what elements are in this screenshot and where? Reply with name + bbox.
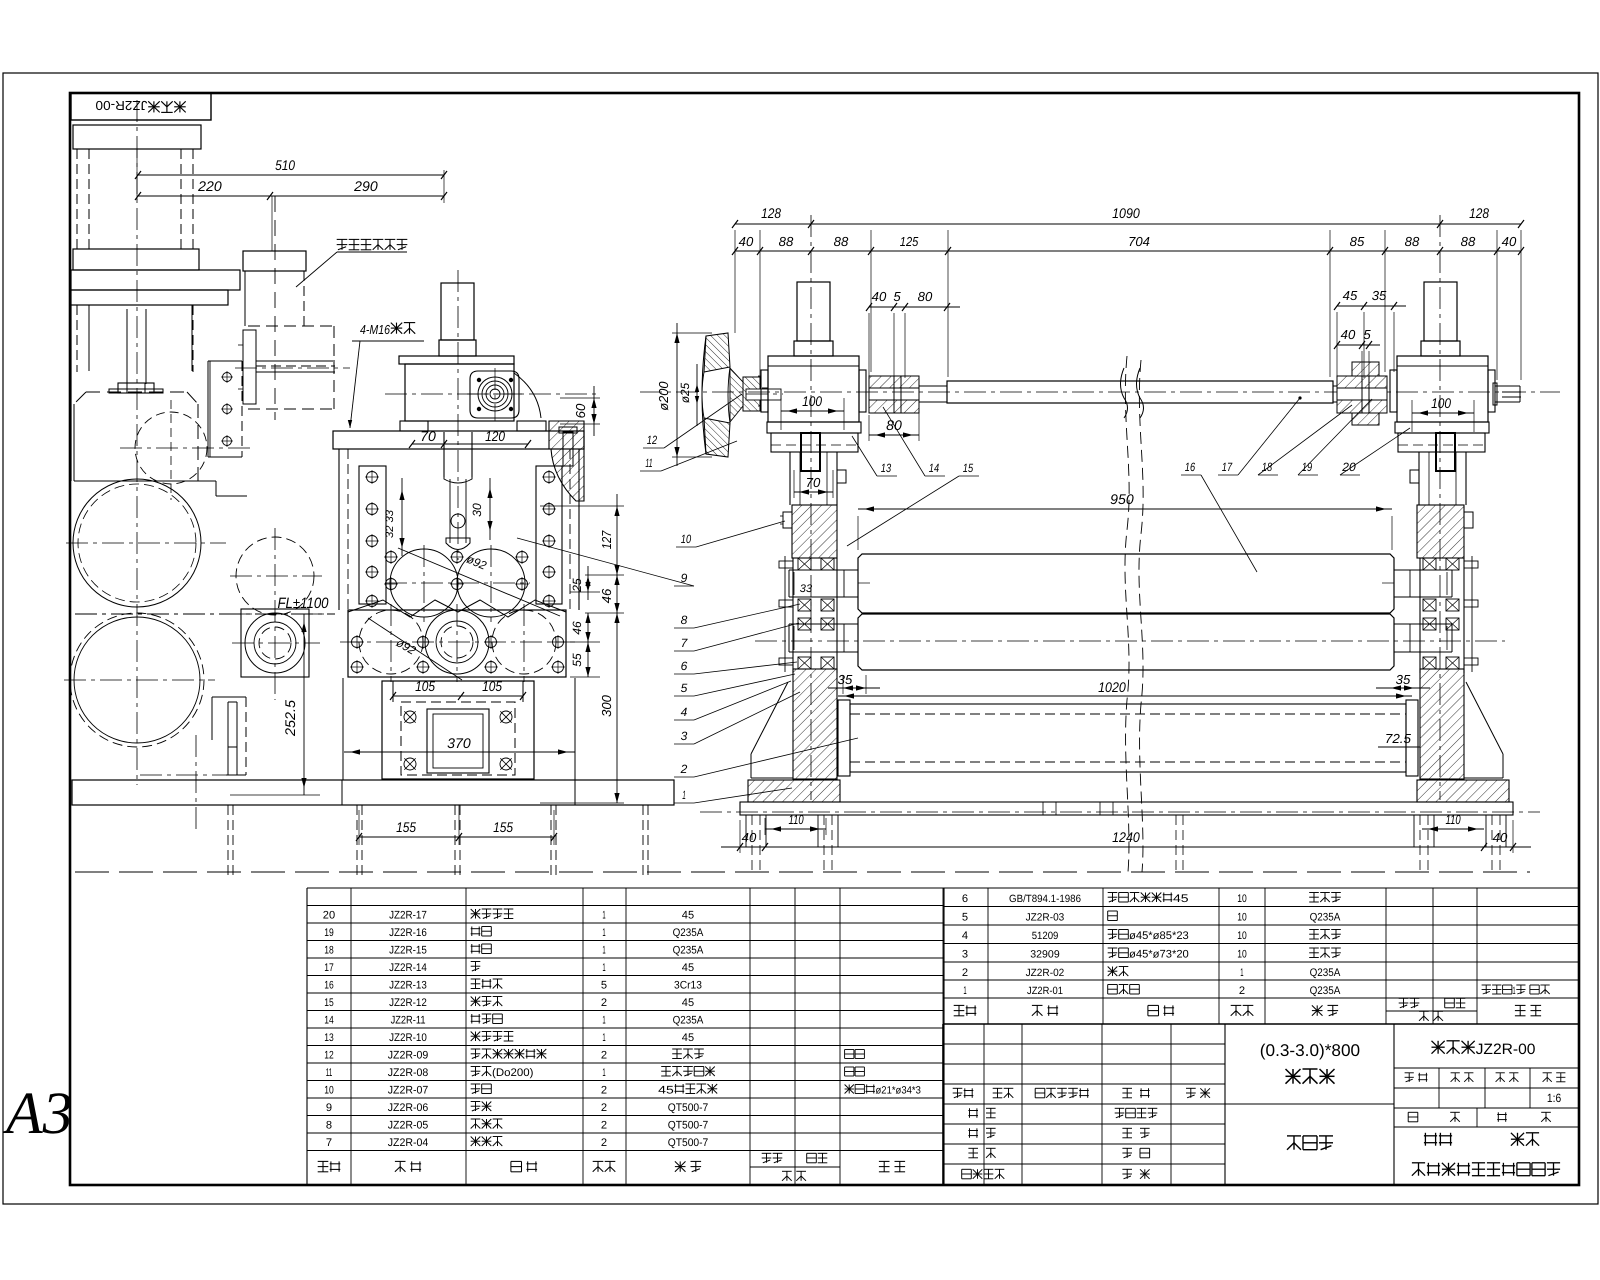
svg-text:JZ2R-02: JZ2R-02 (1026, 967, 1065, 979)
dim 80 left (869, 434, 919, 436)
svg-text:1: 1 (602, 1067, 605, 1079)
svg-text:33: 33 (800, 583, 813, 595)
svg-text:32 33: 32 33 (384, 509, 396, 538)
svg-text:JZ2R-13: JZ2R-13 (389, 980, 427, 992)
svg-text:11: 11 (645, 456, 652, 470)
dim 35 right (1376, 687, 1430, 689)
svg-text:(Do200): (Do200) (492, 1067, 533, 1079)
svg-text:45: 45 (682, 910, 694, 922)
title block company name (1424, 1133, 1452, 1146)
svg-text:1: 1 (602, 910, 605, 922)
svg-text:1:6: 1:6 (1547, 1091, 1562, 1105)
left view: lower roll circles (359, 610, 423, 674)
svg-text:40: 40 (1341, 327, 1356, 342)
handwheel dish and hub (hatched) (730, 368, 743, 422)
right jack support column (1418, 452, 1420, 505)
left view: gearbox casting curve (514, 373, 541, 418)
anchor legs below base (745, 815, 747, 847)
left view: worm shaft centerline (385, 393, 600, 395)
left view: motor column cap bottom (73, 249, 199, 270)
svg-text:JZ2R-10: JZ2R-10 (389, 1032, 427, 1044)
right stand bearings lower roll (1423, 618, 1436, 630)
svg-text:8: 8 (326, 1120, 332, 1132)
dim 1020 tie beam (838, 695, 1412, 697)
svg-text:5: 5 (893, 289, 901, 304)
upper roll barrel (858, 554, 1394, 613)
svg-text:JZ2R-01: JZ2R-01 (1027, 985, 1063, 997)
svg-text:GB/T894.1-1986: GB/T894.1-1986 (1009, 893, 1081, 905)
left jack input shaft (762, 387, 768, 389)
svg-text:2: 2 (601, 997, 607, 1009)
left stand bearings lower roll (798, 618, 811, 630)
title block signature rows (968, 1108, 978, 1118)
svg-text:2: 2 (680, 762, 688, 776)
svg-text:155: 155 (396, 819, 416, 835)
svg-text:2: 2 (962, 967, 968, 979)
front view dim 45 35 (right) (1337, 305, 1406, 307)
right BOM table grid (942, 888, 944, 1024)
right jack gearbox side flanges (1390, 370, 1397, 412)
front view left stand centerline (810, 215, 812, 800)
left view dim 510 (138, 174, 444, 176)
svg-text:QT500-7: QT500-7 (668, 1120, 709, 1132)
svg-text:12: 12 (324, 1050, 334, 1062)
svg-text:1: 1 (602, 927, 605, 939)
svg-text:100: 100 (1431, 395, 1451, 411)
svg-text:127: 127 (599, 530, 614, 549)
left jack output coupling (hatched) (869, 376, 919, 388)
svg-text:JZ2R-09: JZ2R-09 (388, 1050, 429, 1062)
left view: jack gearbox screw (441, 283, 474, 340)
left view: corner bracket hatched (549, 421, 584, 501)
svg-text:88: 88 (834, 234, 849, 249)
svg-text:2: 2 (601, 1050, 607, 1062)
right roll neck profile (1394, 569, 1452, 571)
right BOM table header text (954, 1005, 977, 1015)
svg-text:3Cr13: 3Cr13 (674, 980, 702, 992)
svg-text:5: 5 (681, 681, 688, 695)
svg-text:10: 10 (1237, 930, 1247, 942)
dim 100 left gearbox (781, 410, 844, 412)
lower roll barrel (858, 614, 1394, 670)
left view extension of FL line (230, 613, 335, 615)
svg-text:20: 20 (323, 910, 335, 922)
svg-text:40: 40 (739, 234, 754, 249)
left view: anchor legs (227, 805, 229, 876)
svg-text:1: 1 (602, 962, 605, 974)
svg-text:1240: 1240 (1112, 829, 1140, 845)
svg-text:1090: 1090 (1112, 205, 1140, 221)
left view: roll end circles (245, 613, 305, 673)
left view: lower roll box (348, 610, 566, 677)
right jack bolt (1464, 512, 1473, 528)
svg-text:1020: 1020 (1098, 679, 1126, 695)
svg-text:Q235A: Q235A (1310, 985, 1341, 997)
svg-text:JZ2R-00: JZ2R-00 (1476, 1041, 1536, 1058)
right stand lower column (hatched) (1420, 669, 1464, 779)
right jack base plates (1395, 422, 1489, 433)
left view: stand side walls (338, 449, 340, 610)
svg-text:JZ2R-04: JZ2R-04 (388, 1137, 429, 1149)
svg-text:10: 10 (681, 532, 692, 546)
left stand lower column (hatched) (793, 669, 837, 779)
dim 110 left (765, 828, 826, 830)
phi200 dimension (676, 323, 678, 466)
left view: gauge column lower box (248, 325, 335, 327)
svg-text:JZ2R-03: JZ2R-03 (1026, 912, 1065, 924)
left stand bearings upper roll (798, 558, 811, 570)
left view dim 32 33 (401, 478, 403, 556)
svg-text:18: 18 (1262, 460, 1273, 474)
svg-text:1: 1 (682, 788, 686, 802)
right stand column walls (1419, 558, 1421, 673)
left view: jack gearbox collar (439, 340, 476, 356)
svg-text:72.5: 72.5 (1385, 731, 1412, 746)
svg-text:FL±1100: FL±1100 (278, 595, 330, 612)
svg-text:ø45*ø73*20: ø45*ø73*20 (1129, 949, 1189, 961)
svg-text:88: 88 (779, 234, 794, 249)
svg-text:11: 11 (326, 1067, 333, 1079)
svg-text:1: 1 (1513, 985, 1516, 997)
ground dashed line (75, 871, 1530, 873)
svg-text:QT500-7: QT500-7 (668, 1102, 709, 1114)
svg-text:4: 4 (962, 930, 968, 942)
svg-text:120: 120 (485, 428, 505, 444)
svg-text:JZ2R-15: JZ2R-15 (389, 945, 427, 957)
left jack screw rod (801, 433, 820, 471)
front view right stand centerline (1439, 215, 1441, 800)
right jack gearbox body (1397, 356, 1488, 422)
svg-text:2: 2 (601, 1137, 607, 1149)
left view: base plate (72, 780, 674, 805)
left view: gear circle small (hidden) (135, 412, 207, 484)
left view right-side dims 127 46 300 (540, 505, 624, 507)
svg-text:15: 15 (963, 461, 974, 475)
svg-text:14: 14 (324, 1015, 334, 1027)
svg-text:55: 55 (570, 653, 584, 667)
svg-text:45: 45 (682, 1032, 694, 1044)
right stand gusset (1466, 682, 1503, 754)
svg-text:ø45*ø85*23: ø45*ø85*23 (1129, 930, 1189, 942)
svg-text:QT500-7: QT500-7 (668, 1137, 709, 1149)
left jack gearbox side flanges (761, 370, 768, 412)
svg-text:45: 45 (682, 962, 694, 974)
svg-text:85: 85 (1350, 234, 1365, 249)
svg-text:ø25: ø25 (678, 383, 692, 404)
svg-text:40: 40 (742, 830, 757, 845)
svg-text:Q235A: Q235A (1310, 912, 1341, 924)
right jack gearbox screw (1424, 282, 1457, 341)
base plate full width (740, 802, 1513, 815)
svg-text:8: 8 (681, 613, 688, 627)
svg-text:155: 155 (493, 819, 513, 835)
svg-text:252.5: 252.5 (282, 700, 298, 737)
svg-text:110: 110 (1446, 812, 1462, 827)
left jack gearbox body (768, 356, 859, 422)
left view: worm shaft flange with bolts (470, 371, 519, 418)
label 定尺测量装置 with leader (337, 239, 408, 249)
svg-text:370: 370 (447, 735, 471, 751)
svg-text:Q235A: Q235A (673, 927, 704, 939)
left view: phi92 upper label (398, 548, 560, 616)
left view: window side plate left with bolts (359, 466, 386, 604)
left view right-side dims 25 46 55 (570, 591, 600, 593)
left view: gear circle mid (73, 479, 201, 607)
front view dim 40 5 80 (left) (869, 306, 960, 308)
svg-text:Q235A: Q235A (673, 1015, 704, 1027)
left view: motor column centerline (136, 100, 138, 785)
svg-text:45: 45 (1343, 288, 1358, 303)
left view: hex nut on screw (118, 383, 154, 393)
title block grid (942, 1024, 944, 1185)
left view dim 252.5 (303, 614, 305, 795)
left BOM table grid (306, 888, 308, 1185)
svg-text:35: 35 (838, 672, 853, 687)
svg-text:JZ2R-14: JZ2R-14 (389, 962, 427, 974)
svg-text:20: 20 (1341, 460, 1356, 474)
svg-text:JZ2R-06: JZ2R-06 (388, 1102, 429, 1114)
svg-text:5: 5 (1363, 327, 1371, 342)
svg-text:10: 10 (324, 1085, 334, 1097)
right stand bearings upper roll (1423, 558, 1436, 570)
svg-text:1: 1 (602, 1032, 605, 1044)
base hatched block left (748, 780, 840, 802)
svg-text:70: 70 (420, 428, 436, 444)
svg-text:4-M16: 4-M16 (360, 322, 391, 337)
title block scale row (1405, 1073, 1414, 1082)
left view: jack gearbox lid (399, 356, 514, 364)
left view dim 70 / 120 (412, 443, 528, 445)
left view dim 155 155 (359, 836, 554, 838)
svg-text:45: 45 (658, 1085, 674, 1097)
top-left title box (rotated drawing code) (71, 93, 211, 120)
svg-text:19: 19 (324, 927, 334, 939)
left roll neck profile (789, 569, 858, 571)
svg-text:88: 88 (1461, 234, 1476, 249)
svg-text:JZ2R-00: JZ2R-00 (96, 98, 148, 113)
svg-text:10: 10 (1237, 949, 1247, 961)
svg-text:128: 128 (761, 205, 781, 221)
front view dim 40 5 (right) (1337, 344, 1380, 346)
svg-text:2: 2 (601, 1120, 607, 1132)
left BOM table header text (318, 1161, 341, 1171)
svg-text:35: 35 (1396, 672, 1411, 687)
left bearing housing (hatched) (792, 505, 837, 558)
svg-text:10: 10 (1237, 912, 1247, 924)
left jack bolt (783, 512, 792, 528)
phi25 dimension (696, 364, 698, 426)
left jack gearbox collar (794, 341, 833, 356)
svg-text:18: 18 (324, 945, 334, 957)
svg-text:17: 17 (324, 962, 334, 974)
left view: roll end housing box (241, 609, 309, 677)
right jack gearbox collar (1421, 341, 1460, 356)
front view top dim chain tier1 128 1090 128 (735, 223, 1521, 225)
right jack screw rod (1436, 433, 1455, 471)
svg-text:10: 10 (1237, 893, 1247, 905)
dim 70 left jack (794, 491, 833, 493)
left view dim 370 (344, 751, 575, 753)
svg-text:A3: A3 (2, 1080, 73, 1146)
svg-text:JZ2R-12: JZ2R-12 (389, 997, 427, 1009)
svg-text:1: 1 (602, 945, 605, 957)
base centerline (700, 811, 1540, 813)
svg-text:32909: 32909 (1030, 949, 1060, 961)
svg-text:3: 3 (962, 949, 968, 961)
svg-text:Q235A: Q235A (1310, 967, 1341, 979)
svg-text:35: 35 (1372, 288, 1387, 303)
svg-text:JZ2R-16: JZ2R-16 (389, 927, 427, 939)
svg-text:110: 110 (789, 812, 805, 827)
left view: idler circle (hidden) (236, 537, 314, 615)
dim 950 roll barrel (858, 508, 1392, 510)
svg-text:290: 290 (353, 178, 378, 194)
svg-text:16: 16 (324, 980, 334, 992)
left view: column lower guides (88, 305, 90, 371)
title block sheet row (1408, 1112, 1418, 1122)
svg-text:2: 2 (1239, 985, 1245, 997)
svg-text:100: 100 (802, 393, 822, 409)
dim 100 right gearbox (1412, 412, 1474, 414)
svg-text:13: 13 (324, 1032, 334, 1044)
svg-text:128: 128 (1469, 205, 1489, 221)
svg-text:60: 60 (573, 403, 588, 418)
title block drawing number (1432, 1041, 1475, 1054)
svg-text:16: 16 (1185, 460, 1196, 474)
right stand end cover bolts (1471, 556, 1473, 672)
svg-text:220: 220 (197, 178, 222, 194)
svg-text:4: 4 (681, 705, 688, 719)
svg-text:40: 40 (872, 289, 887, 304)
left view dim 60 (560, 397, 600, 399)
left view: pressing screw lower (443, 432, 445, 477)
left view: lower chamber bolts (352, 637, 363, 648)
svg-text:30: 30 (470, 503, 484, 517)
front view extension lines from dim chains (734, 230, 736, 333)
left view: lower bracket step (212, 696, 246, 698)
svg-text:15: 15 (324, 997, 334, 1009)
FL±1100 floor line (75, 613, 335, 615)
front view top dim chain tier2 40 88 88 125 704 85 88 88 40 (735, 250, 1521, 252)
svg-text:80: 80 (918, 289, 933, 304)
left view: window side plate right with bolts (536, 466, 562, 604)
left view dim 105 105 (393, 695, 523, 697)
svg-text:JZ2R-17: JZ2R-17 (389, 910, 427, 922)
svg-text:JZ2R-05: JZ2R-05 (388, 1120, 429, 1132)
svg-text:12: 12 (647, 433, 658, 447)
svg-text:125: 125 (900, 234, 919, 249)
left view: phi92 lower label (368, 618, 462, 680)
svg-text:JZ2R-08: JZ2R-08 (388, 1067, 429, 1079)
svg-text:88: 88 (1405, 234, 1420, 249)
handwheel rim section (hatched) (704, 333, 730, 372)
lower roll centerline (755, 640, 1505, 642)
svg-text:51209: 51209 (1032, 930, 1059, 942)
svg-text:704: 704 (1128, 234, 1150, 249)
svg-text:(0.3-3.0)*800: (0.3-3.0)*800 (1260, 1041, 1360, 1060)
left stand end cover bolts (784, 556, 786, 672)
left view: upper chamber bolts (386, 552, 397, 563)
title block revision row labels (953, 1088, 974, 1098)
svg-text:1: 1 (963, 985, 966, 997)
svg-text:Q235A: Q235A (673, 945, 704, 957)
left view: jack gearbox body (405, 364, 514, 421)
svg-text:1: 1 (1240, 967, 1243, 979)
left jack gearbox screw (797, 282, 830, 341)
right jack output shaft (1495, 385, 1520, 387)
svg-text:14: 14 (929, 461, 940, 475)
left view: hopper outline (86, 391, 187, 393)
left view: gauge column body (244, 271, 246, 326)
dim 35 left (828, 687, 880, 689)
shaft break curves (1121, 368, 1128, 418)
right bearing housing (hatched) (1417, 505, 1464, 558)
dim 110 right (1422, 828, 1484, 830)
left stand column walls (792, 558, 794, 673)
left view: pedestal (382, 681, 534, 779)
svg-text:45: 45 (1173, 893, 1189, 905)
svg-text:40: 40 (1502, 234, 1517, 249)
svg-text:40: 40 (1493, 830, 1508, 845)
left view: gauge guide bar (243, 330, 256, 404)
svg-text:300: 300 (599, 694, 614, 717)
right jack coupling cross (hatched) (1352, 362, 1379, 376)
svg-text:46: 46 (570, 621, 584, 635)
jack connecting shaft with break (947, 381, 1333, 403)
left view dim 220 / 290 (138, 195, 444, 197)
left view: pedestal bolts (404, 711, 416, 723)
left view: gear circle bottom (hidden) (70, 613, 204, 747)
svg-text:45: 45 (682, 997, 694, 1009)
svg-text:2: 2 (601, 1102, 607, 1114)
svg-text:JZ2R-07: JZ2R-07 (388, 1085, 429, 1097)
left jack base plates (767, 422, 861, 433)
left view: pedestal hidden square (401, 702, 515, 775)
svg-text:ø200: ø200 (656, 381, 671, 411)
left view: mounting plate 2 (71, 290, 228, 305)
svg-text:510: 510 (275, 157, 295, 173)
svg-text:7: 7 (326, 1137, 332, 1149)
svg-text:25: 25 (570, 578, 584, 593)
left view: gauge rails to stand (256, 360, 335, 362)
left view: stand top plate (333, 431, 584, 449)
long break lines through view (1125, 356, 1129, 872)
dim 1240 and 40 40 baseline (721, 846, 1531, 848)
svg-text:6: 6 (681, 659, 688, 673)
left view: gauge column cap (243, 251, 306, 271)
svg-text:2: 2 (601, 1085, 607, 1097)
left view: support bracket with bolts (208, 360, 242, 362)
svg-text:46: 46 (599, 588, 614, 603)
svg-text:950: 950 (1110, 491, 1134, 507)
title block drawing type 装配图 (1287, 1136, 1333, 1150)
svg-text:6: 6 (962, 893, 968, 905)
tie beam between stands (850, 704, 1406, 772)
svg-text:5: 5 (962, 912, 968, 924)
svg-text:70: 70 (806, 475, 821, 490)
svg-text:17: 17 (1222, 460, 1233, 474)
left jack support column (789, 452, 791, 505)
svg-text:ø21*ø34*3: ø21*ø34*3 (876, 1085, 922, 1097)
left view dim 30 (489, 478, 491, 540)
left view: motor column cap top (73, 125, 201, 149)
left view: motor column body (hidden lines) (76, 149, 78, 249)
left view: upper roll circles (390, 549, 458, 617)
svg-text:9: 9 (326, 1102, 332, 1114)
left view: mounting plate 1 (71, 270, 240, 290)
svg-text:13: 13 (881, 461, 892, 475)
left stand gusset (751, 682, 788, 754)
